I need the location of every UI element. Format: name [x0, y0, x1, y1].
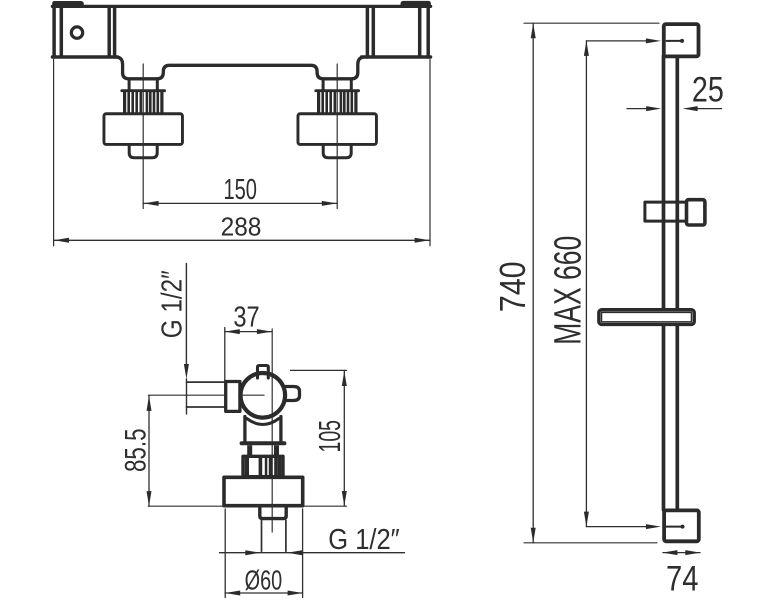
left valve knurl ribs [123, 92, 164, 113]
top tab of cartridge [258, 366, 269, 379]
dimension 150 line [143, 202, 337, 204]
soap dish inner line [602, 312, 692, 322]
G 1/2 inlet leader line [185, 264, 187, 367]
shared bottom extension line at flange base [148, 505, 346, 507]
right valve stem left side [322, 80, 325, 91]
dimension 288 left arrow [54, 238, 69, 243]
inlet pipe centerline [148, 394, 264, 396]
bottom bracket screw dot [681, 525, 685, 529]
dimension D60 line [225, 592, 302, 594]
slider holder body [645, 202, 689, 221]
neck left wall [243, 417, 246, 443]
right handle box [298, 114, 377, 145]
side knurl ribs [245, 456, 282, 476]
right handle lower stem [323, 145, 351, 158]
bottom wall bracket [664, 510, 699, 541]
left block outer-right edge [113, 7, 117, 57]
rail tube left line [662, 56, 666, 510]
right valve knurl top line [316, 89, 359, 92]
dimension 85.5 bottom arrow [147, 491, 152, 506]
dimension 105 bottom arrow [342, 491, 347, 506]
soap dish outer [599, 310, 695, 325]
top bracket screw dot [680, 39, 684, 43]
outlet nut [260, 507, 286, 518]
dimension 74 left arrow [662, 550, 677, 555]
G 1/2 outlet right arrow [287, 550, 302, 555]
ball bottom arc inside neck [247, 419, 279, 425]
MAX 660 bottom extension line with arrow [586, 526, 646, 528]
side knurl box [243, 456, 283, 476]
dimension 25 right line [698, 108, 722, 110]
body bottom contour with valve steps [117, 57, 364, 79]
G 1/2 inlet leader arrow [184, 364, 189, 379]
left stem stub [247, 445, 252, 455]
MAX 660 top extension arrow [646, 38, 661, 43]
svg-text:85.5: 85.5 [120, 429, 153, 473]
MAX 660 top arrow [584, 41, 589, 56]
right valve centerline [336, 64, 338, 209]
dimension 740 bottom arrow [531, 528, 536, 543]
dimension 288 right arrow [415, 238, 430, 243]
dimension 740 top extension line [524, 22, 659, 24]
neck right wall [279, 417, 282, 443]
MAX 660 dimension line [585, 41, 587, 527]
outlet pipe right line [285, 520, 287, 551]
dimension 150 left arrow [144, 201, 159, 206]
dimension 150 right arrow [322, 201, 337, 206]
G 1/2 outlet left arrow [245, 550, 260, 555]
left valve stem right side [156, 80, 159, 91]
dimension 37 left extension line [224, 328, 226, 381]
top wall bracket [664, 24, 699, 56]
screw hole circle on left block [71, 27, 82, 38]
body top line [52, 5, 430, 8]
right stem stub [274, 445, 279, 455]
slider knob [687, 200, 705, 225]
svg-text:Ø60: Ø60 [245, 565, 283, 596]
left connector block [226, 382, 240, 412]
dimension 37 right arrow [257, 329, 272, 334]
left valve stem left side [128, 80, 131, 91]
dimension 37 left arrow [225, 329, 240, 334]
MAX 660 bottom extension arrow [646, 524, 661, 529]
MAX 660 bottom arrow [584, 512, 589, 527]
svg-text:105: 105 [312, 420, 347, 453]
bottom bracket screw line [666, 526, 681, 528]
left block outer-left edge [52, 7, 56, 57]
right block inner-right line [418, 8, 422, 55]
svg-text:G 1/2″: G 1/2″ [156, 270, 188, 338]
dimension 74 right arrow [685, 550, 700, 555]
dimension 85.5 line [148, 396, 150, 506]
dimension D60 left extension line [224, 509, 226, 598]
dimension 25 right arrow [683, 106, 698, 111]
left valve centerline [142, 64, 144, 209]
rail tube right line [675, 56, 679, 308]
outlet flange [224, 477, 303, 505]
top bracket screw line [667, 40, 681, 42]
dimension 105 top extension line [291, 369, 347, 371]
dimension 740 top arrow [531, 23, 536, 38]
dimension 288 left extension line [53, 60, 55, 246]
inlet pipe bottom line [187, 406, 228, 408]
valve axis line [271, 329, 273, 532]
dimension 85.5 top arrow [147, 396, 152, 411]
svg-text:74: 74 [666, 559, 699, 599]
dimension 288 line [54, 239, 430, 241]
svg-text:25: 25 [692, 71, 724, 110]
right valve stem right side [350, 80, 353, 91]
dimension 740 bottom extension line [524, 542, 657, 544]
left block inner-right line [107, 8, 111, 55]
right block inner-left line [372, 8, 376, 55]
cartridge housing circle [240, 373, 285, 418]
inlet pipe left end line [186, 379, 188, 414]
right block outer-right edge [426, 7, 430, 57]
dimension D60 right arrow [288, 591, 303, 596]
left block bottom line [52, 55, 117, 58]
dimension 25 left line [627, 108, 647, 110]
dimension 105 top arrow [342, 371, 347, 386]
label G 1/2 outlet leader line [220, 552, 405, 554]
neck bottom bar [242, 441, 285, 445]
dimension 105 line [343, 371, 345, 506]
left top cap slab [52, 1, 84, 8]
dimension D60 right extension line [302, 509, 304, 598]
right block outer-left edge [366, 7, 370, 57]
dimension 740 line [532, 23, 534, 543]
dimension D60 left arrow [225, 591, 240, 596]
outlet pipe left line [261, 520, 263, 551]
left handle lower stem [129, 145, 157, 158]
right block bottom line [362, 55, 431, 58]
svg-text:MAX 660: MAX 660 [547, 236, 589, 345]
svg-text:G 1/2″: G 1/2″ [328, 524, 399, 556]
MAX 660 top extension line with arrow [586, 40, 646, 42]
left block inner-left line [60, 8, 64, 55]
right valve knurl ribs [317, 92, 358, 113]
svg-text:288: 288 [221, 211, 262, 241]
svg-text:150: 150 [223, 174, 257, 206]
left valve knurl top line [122, 89, 165, 92]
dimension 37 line [225, 331, 272, 333]
svg-text:37: 37 [233, 301, 259, 333]
inlet pipe top line [187, 381, 228, 383]
right top cap slab [401, 1, 431, 8]
right lug of cartridge [284, 387, 300, 401]
dimension 74 line [663, 552, 700, 554]
rail tube right line lower [675, 326, 679, 509]
svg-text:740: 740 [492, 261, 533, 312]
dimension 288 right extension line [429, 60, 431, 246]
left handle box [104, 114, 183, 145]
dimension 25 left arrow [646, 106, 661, 111]
